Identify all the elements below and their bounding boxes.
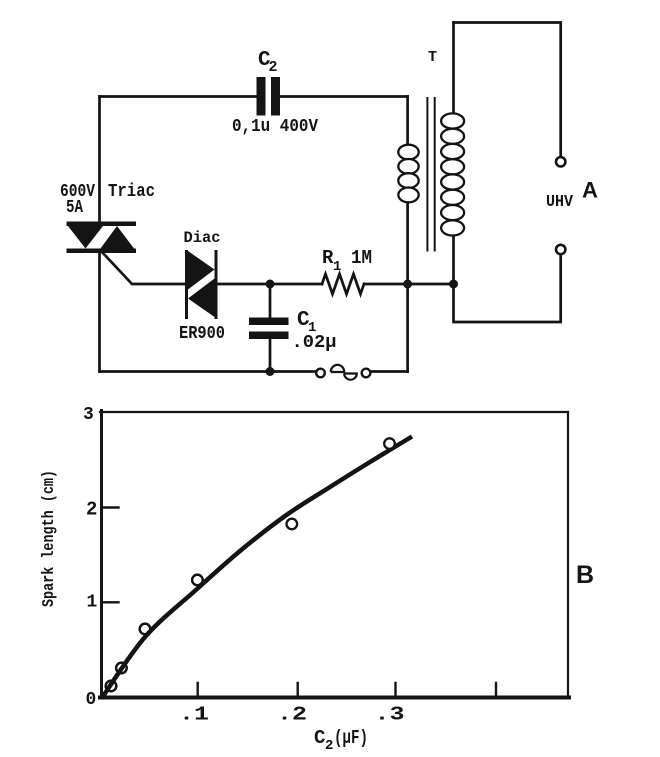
svg-text:(µF): (µF) <box>334 727 368 749</box>
svg-text:0: 0 <box>86 690 97 710</box>
svg-text:A: A <box>582 178 598 203</box>
svg-text:Spark length (cm): Spark length (cm) <box>40 470 59 607</box>
svg-text:Diac: Diac <box>184 229 221 247</box>
svg-text:ER900: ER900 <box>179 324 225 344</box>
svg-text:B: B <box>576 561 594 589</box>
svg-text:C: C <box>314 727 325 749</box>
svg-text:Triac: Triac <box>108 182 155 202</box>
svg-text:1: 1 <box>333 259 341 275</box>
svg-text:2: 2 <box>269 59 278 76</box>
svg-text:.02µ: .02µ <box>292 333 337 353</box>
svg-text:2: 2 <box>325 738 333 754</box>
svg-text:T: T <box>428 49 437 66</box>
svg-text:5A: 5A <box>66 198 83 218</box>
svg-text:.3: .3 <box>375 704 405 726</box>
svg-text:1: 1 <box>87 593 98 613</box>
svg-text:.1: .1 <box>179 704 209 726</box>
svg-text:3: 3 <box>83 405 94 425</box>
svg-text:1M: 1M <box>351 247 372 269</box>
svg-text:2: 2 <box>86 499 97 521</box>
svg-text:UHV: UHV <box>546 193 574 212</box>
svg-text:0,1u 400V: 0,1u 400V <box>232 117 318 137</box>
svg-text:.2: .2 <box>277 704 307 726</box>
